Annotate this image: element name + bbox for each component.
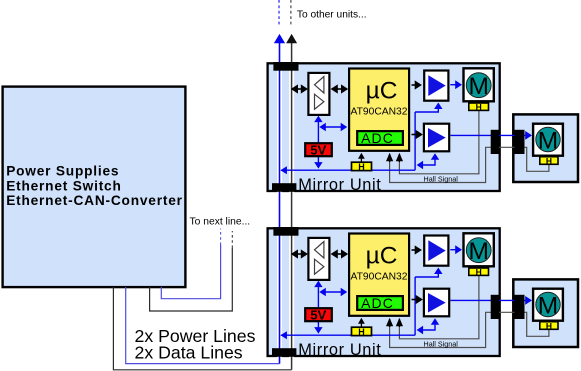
- hall signal wire from motor 1a to uC: [399, 111, 479, 174]
- hall sensor of external motor 1: [540, 157, 558, 165]
- CAN transceiver 1: [308, 73, 329, 115]
- svg-text:µC: µC: [366, 242, 398, 269]
- svg-text:5V: 5V: [310, 143, 326, 158]
- 5V riser to transceiver 1: [317, 121, 319, 143]
- svg-text:ADC: ADC: [361, 295, 394, 311]
- svg-text:Mirror Unit: Mirror Unit: [298, 176, 381, 194]
- svg-text:µC: µC: [366, 77, 398, 104]
- hall sensor of motor 2a: [469, 268, 489, 275]
- data line wire (black) from supply box to units: [113, 287, 291, 370]
- hall wire arrowheads into uC 1: [398, 154, 400, 162]
- amplifier 1a: [424, 71, 448, 101]
- hall sensor of motor 1a: [469, 103, 489, 110]
- power supply / switch / converter box: [3, 87, 186, 288]
- top connector of unit 2: [273, 227, 298, 236]
- power line wire to next line (blue): [161, 245, 220, 299]
- CAN transceiver 2: [308, 238, 329, 280]
- hall sensor H 2 (at uC): [352, 327, 372, 335]
- right-edge connector of unit 1: [491, 130, 499, 154]
- svg-text:ADC: ADC: [361, 130, 394, 146]
- hall wire arrowheads into uC 2: [398, 319, 400, 327]
- external mirror motor 1: [533, 124, 563, 156]
- 5V branch to uC 1 (double arrow): [324, 126, 342, 128]
- svg-text:To next line...: To next line...: [190, 217, 251, 228]
- H sensor to uC arrow 1: [360, 158, 362, 162]
- svg-text:H: H: [546, 156, 552, 166]
- power line wire (blue) from supply box to units: [126, 287, 280, 364]
- connector of external motor box 2: [515, 295, 525, 319]
- uC to amplifier 1a arrow: [412, 84, 416, 86]
- svg-text:H: H: [476, 267, 482, 277]
- external mirror-motor box 1: [513, 114, 578, 182]
- amplifier 2b output through connector to external motor: [486, 299, 489, 302]
- connector of external motor box 1: [515, 130, 525, 154]
- hall sensor H 1 (at uC): [352, 162, 372, 170]
- transceiver rx triangle 2: [315, 242, 324, 259]
- 5V distribution bus 2: [281, 334, 415, 336]
- bottom connector of unit 2: [272, 348, 296, 357]
- amplifier 2a: [424, 236, 448, 266]
- microcontroller U2 AT90CAN32: [349, 234, 409, 316]
- bottom connector of unit 1: [272, 183, 296, 192]
- data line arrow to other units: [286, 34, 297, 43]
- 5V branch to uC 2 (double arrow): [324, 291, 342, 293]
- svg-text:2x Data Lines: 2x Data Lines: [135, 343, 243, 363]
- svg-text:To other units...: To other units...: [297, 10, 367, 21]
- ADC block 1: [357, 131, 403, 145]
- hall signal wire from external motor 2 to uC: [390, 312, 549, 347]
- transceiver tx triangle 2: [315, 259, 324, 274]
- mirror motor 2a: [464, 233, 494, 266]
- power line dashed continuation (top): [278, 0, 280, 25]
- mirror unit 1 enclosure: [268, 63, 500, 191]
- 5V regulator 1: [305, 143, 332, 156]
- CAN bus to transceiver 1 (double arrow): [294, 88, 305, 90]
- amplifier 1a output to motor: [450, 84, 456, 86]
- hall signal wire from motor 2a to uC: [399, 276, 479, 339]
- 5V distribution bus 1: [281, 169, 415, 171]
- 5V regulator 2: [305, 308, 332, 321]
- amplifier 1b: [424, 124, 449, 152]
- transceiver tx triangle 1: [315, 94, 324, 109]
- svg-text:H: H: [476, 102, 482, 112]
- microcontroller U1 AT90CAN32: [349, 69, 409, 151]
- mirror motor 1a: [464, 68, 494, 101]
- svg-text:Hall Signal: Hall Signal: [424, 175, 459, 184]
- svg-text:M: M: [468, 238, 488, 265]
- uC to amplifier 1b arrow: [412, 134, 417, 136]
- hall signal wire from external motor 1 to uC: [390, 147, 549, 182]
- external mirror-motor box 2: [513, 279, 578, 347]
- 5V riser to amplifiers 1: [414, 112, 416, 170]
- 5V riser to amplifiers 2: [414, 277, 416, 335]
- ADC block 2: [357, 296, 403, 310]
- amplifier 1b output through connector to external motor: [486, 134, 489, 137]
- svg-text:Ethernet-CAN-Converter: Ethernet-CAN-Converter: [6, 193, 183, 208]
- top connector of unit 1: [273, 62, 298, 71]
- mirror unit 2 enclosure: [268, 228, 500, 356]
- amplifier 2a output to motor: [450, 249, 456, 251]
- svg-text:Hall Signal: Hall Signal: [424, 340, 459, 349]
- data line wire to next line (black): [150, 248, 233, 311]
- external mirror motor 2: [533, 289, 563, 321]
- white casing of bus lines: [277, 45, 282, 362]
- transceiver to uC 2 (double arrow): [334, 253, 345, 255]
- H sensor to uC arrow 2: [360, 323, 362, 327]
- svg-text:Mirror Unit: Mirror Unit: [298, 341, 381, 359]
- svg-text:AT90CAN32: AT90CAN32: [350, 107, 407, 118]
- transceiver to uC 1 (double arrow): [334, 88, 345, 90]
- svg-text:H: H: [358, 327, 365, 337]
- amplifier 2b: [424, 289, 449, 317]
- 5V riser to transceiver 2: [317, 286, 319, 308]
- svg-text:M: M: [468, 73, 488, 100]
- svg-text:AT90CAN32: AT90CAN32: [350, 272, 407, 283]
- transceiver rx triangle 1: [315, 77, 324, 94]
- svg-text:M: M: [538, 127, 558, 154]
- hall sensor of external motor 2: [540, 322, 558, 330]
- svg-text:5V: 5V: [310, 308, 326, 323]
- svg-text:M: M: [538, 292, 558, 319]
- uC to amplifier 2b arrow: [412, 299, 417, 301]
- svg-text:Power Supplies: Power Supplies: [6, 164, 119, 179]
- svg-text:H: H: [358, 162, 365, 172]
- svg-text:H: H: [546, 321, 552, 331]
- right-edge connector of unit 2: [491, 295, 499, 319]
- data line dashed continuation (top): [290, 0, 292, 25]
- CAN bus to transceiver 2 (double arrow): [294, 253, 305, 255]
- power line arrow to other units: [274, 34, 285, 43]
- svg-text:Ethernet Switch: Ethernet Switch: [6, 178, 121, 193]
- uC to amplifier 2a arrow: [412, 249, 416, 251]
